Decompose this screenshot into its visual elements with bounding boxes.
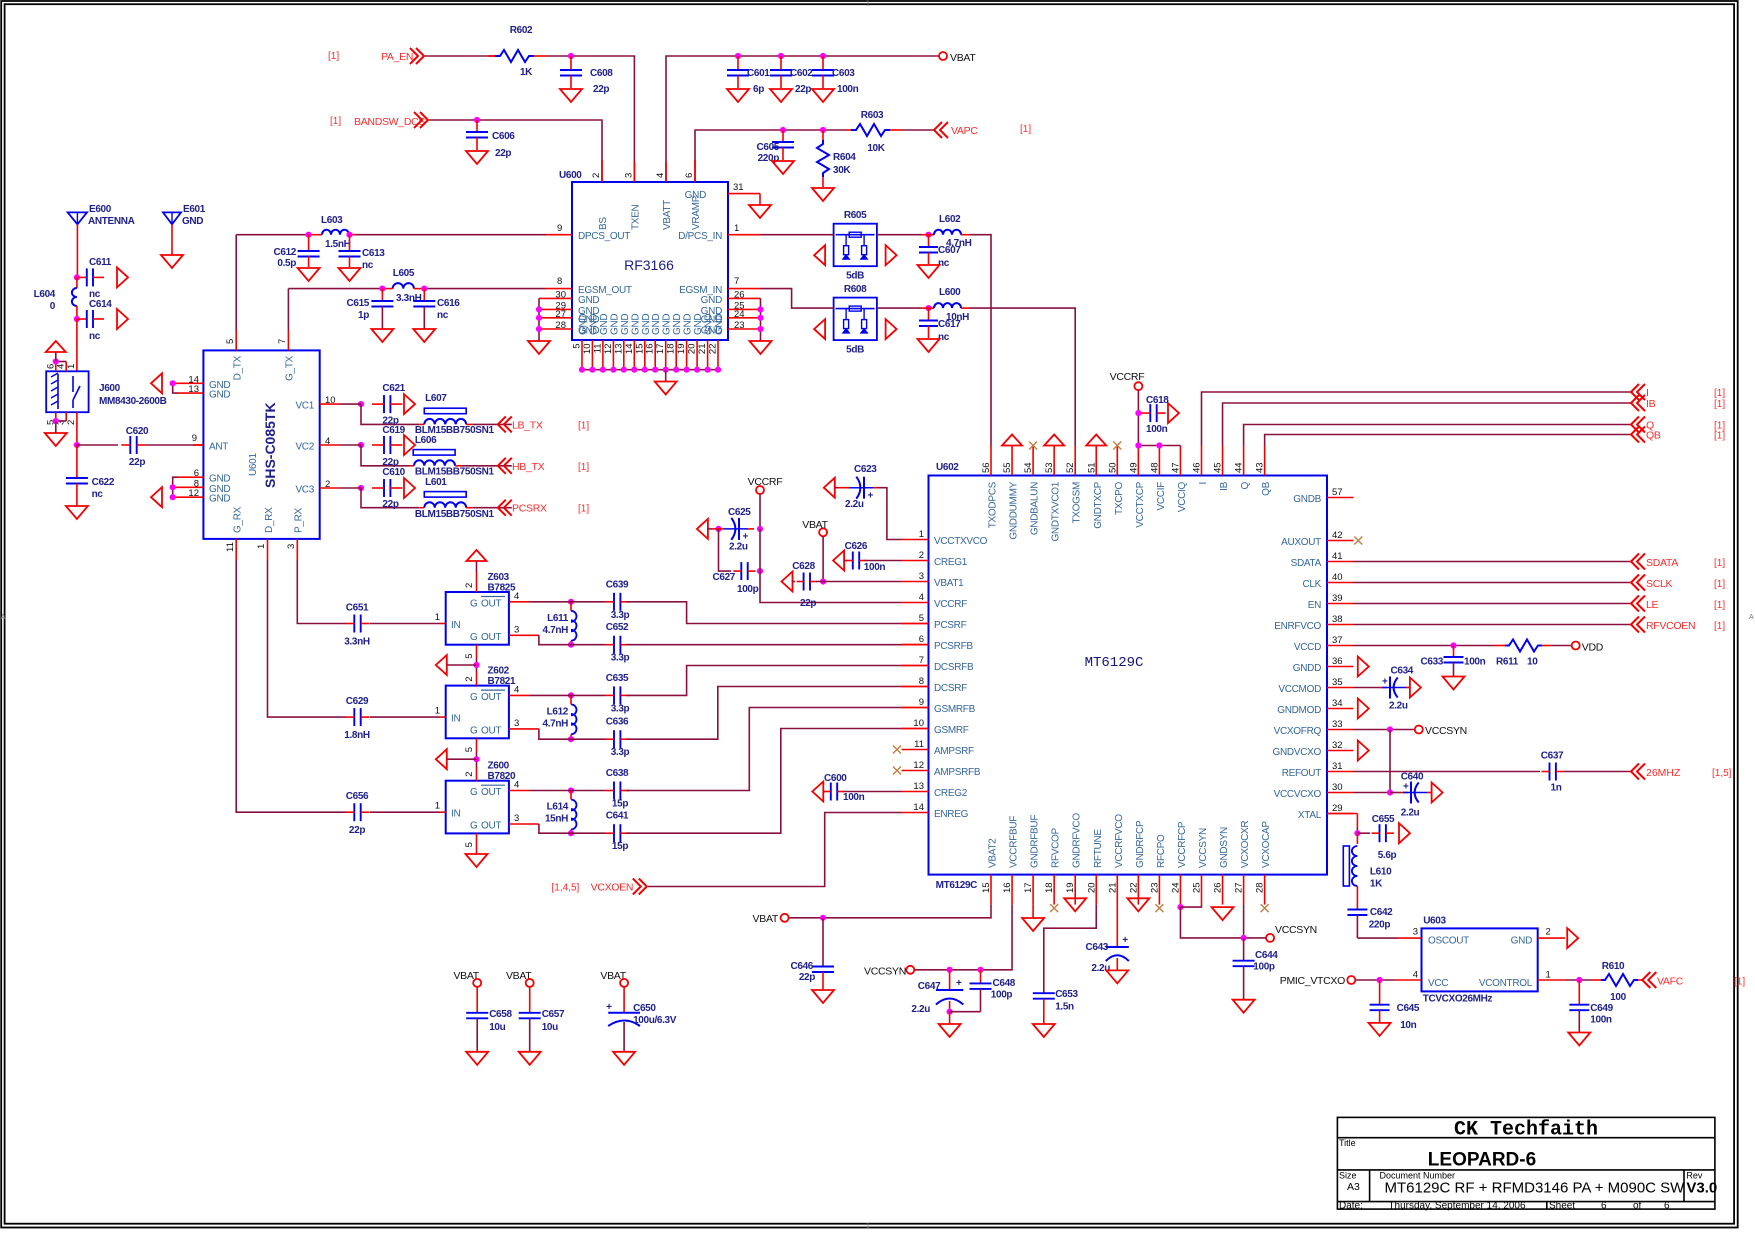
wire Z603 pin5 / Z602 pin2 [476, 645, 478, 658]
svg-text:L612: L612 [547, 706, 569, 717]
capacitor C607 [928, 235, 930, 247]
inductor L610 [1356, 833, 1358, 844]
svg-text:ANT: ANT [209, 442, 228, 453]
ground [1233, 1000, 1255, 1013]
wire [865, 560, 902, 562]
junction [1135, 442, 1141, 448]
svg-text:+: + [868, 491, 874, 502]
wire [76, 319, 78, 371]
capacitor C652 [565, 644, 605, 646]
svg-text:3.3p: 3.3p [611, 610, 630, 621]
svg-text:RFCPO: RFCPO [1156, 834, 1167, 868]
wire VCCSYN right [1179, 905, 1181, 908]
wire [146, 444, 193, 446]
junction [757, 526, 763, 532]
svg-text:GND: GND [683, 314, 694, 335]
svg-text:C646: C646 [790, 961, 813, 972]
svg-text:GND: GND [704, 314, 715, 335]
ground [812, 990, 834, 1003]
svg-text:C614: C614 [89, 299, 112, 310]
svg-text:RFVCOP: RFVCOP [1051, 827, 1062, 868]
junction [735, 53, 741, 59]
svg-text:0: 0 [50, 301, 56, 312]
svg-text:1: 1 [734, 223, 739, 234]
svg-text:L600: L600 [939, 287, 961, 298]
svg-text:AMPSRFB: AMPSRFB [934, 767, 981, 778]
svg-text:U603: U603 [1423, 916, 1446, 927]
wire [56, 361, 66, 363]
SAW filter Z603 B7825 [446, 592, 509, 645]
no-connect pin54 [1029, 442, 1037, 450]
wire [1564, 771, 1631, 773]
wire [509, 823, 539, 825]
svg-text:IN: IN [451, 620, 460, 631]
svg-text:C608: C608 [590, 68, 613, 79]
wire [472, 423, 512, 425]
wire [370, 811, 440, 813]
svg-text:C613: C613 [362, 248, 385, 259]
svg-text:31: 31 [1332, 761, 1343, 772]
capacitor C651 [353, 615, 355, 633]
svg-text:R604: R604 [833, 152, 856, 163]
net flag VCXOEN [633, 879, 647, 895]
IC U602 MT6129C [929, 476, 1328, 875]
svg-text:SDATA: SDATA [1646, 557, 1678, 569]
capacitor C614 [77, 318, 86, 320]
svg-text:VCCIQ: VCCIQ [1177, 481, 1188, 512]
wire [761, 234, 834, 236]
arrow [404, 478, 415, 498]
svg-text:C653: C653 [1055, 989, 1078, 1000]
svg-text:VCXOCAP: VCXOCAP [1261, 821, 1272, 868]
junction [694, 367, 700, 373]
wire I [1202, 392, 1632, 446]
svg-text:C622: C622 [92, 477, 115, 488]
wire [1354, 603, 1632, 605]
svg-text:Q: Q [1240, 481, 1251, 489]
svg-text:C656: C656 [346, 791, 369, 802]
svg-text:12: 12 [603, 344, 614, 355]
wire [816, 581, 902, 583]
junction [780, 127, 786, 133]
junction [589, 367, 595, 373]
svg-text:V3.0: V3.0 [1686, 1180, 1717, 1197]
SAW filter Z602 B7821 [446, 686, 509, 739]
arrow pin36 [1358, 657, 1369, 677]
junction [1387, 726, 1393, 732]
svg-text:22p: 22p [129, 457, 145, 468]
svg-text:GNDB: GNDB [1293, 494, 1321, 505]
svg-text:TXOGSM: TXOGSM [1072, 482, 1083, 524]
junction [757, 326, 763, 332]
attenuator R608 [834, 298, 877, 341]
junction [1450, 642, 1456, 648]
svg-text:30: 30 [1332, 782, 1343, 793]
svg-text:U600: U600 [559, 170, 582, 181]
svg-text:22p: 22p [593, 84, 609, 95]
capacitor C637 [1549, 763, 1551, 781]
svg-text:TCVCXO26MHz: TCVCXO26MHz [1423, 994, 1493, 1005]
svg-text:37: 37 [1332, 635, 1343, 646]
power terminal VCCRF [1134, 382, 1142, 390]
svg-text:C616: C616 [437, 298, 460, 309]
svg-text:DCSRFB: DCSRFB [934, 662, 974, 673]
capacitor C655 [1357, 832, 1370, 834]
ground [339, 268, 361, 281]
ground pin26 [1212, 907, 1234, 920]
svg-text:BS: BS [598, 217, 609, 230]
svg-text:[1]: [1] [578, 462, 589, 473]
junction [820, 127, 826, 133]
wire gnd bus left [538, 298, 540, 341]
svg-text:L610: L610 [1370, 867, 1392, 878]
svg-text:VBAT: VBAT [802, 519, 828, 531]
arrow [1567, 928, 1578, 948]
wire [361, 488, 419, 508]
wire [370, 623, 440, 625]
svg-text:R608: R608 [844, 284, 867, 295]
svg-text:GNDD: GNDD [1293, 663, 1321, 674]
svg-text:[1]: [1] [328, 51, 339, 62]
svg-text:G: G [470, 632, 478, 643]
ground [939, 1024, 961, 1037]
svg-text:PMIC_VTCXO: PMIC_VTCXO [1280, 975, 1345, 987]
wire [173, 477, 178, 497]
svg-text:[1]: [1] [1020, 124, 1031, 135]
svg-text:1: 1 [256, 544, 267, 549]
capacitor C629 [353, 708, 355, 726]
svg-text:4: 4 [655, 173, 666, 178]
power terminal VCCSYN [906, 966, 914, 974]
svg-text:TXEN: TXEN [630, 204, 641, 230]
svg-text:100n: 100n [843, 792, 865, 803]
svg-text:15nH: 15nH [545, 814, 568, 825]
IC U603 TCVCXO26MHz [1422, 928, 1538, 991]
svg-text:C636: C636 [606, 717, 629, 728]
svg-text:VCCRF: VCCRF [1110, 371, 1145, 383]
ground [1369, 1023, 1391, 1036]
svg-text:3: 3 [514, 813, 519, 824]
svg-text:3: 3 [919, 571, 924, 582]
net flag VAFC [1642, 972, 1656, 988]
svg-text:9: 9 [192, 433, 197, 444]
svg-text:ENREG: ENREG [934, 809, 969, 820]
ground [298, 268, 320, 281]
svg-text:100n: 100n [1146, 424, 1168, 435]
svg-text:[1]: [1] [1714, 579, 1725, 590]
junction [1377, 977, 1383, 983]
junction [379, 286, 385, 292]
svg-text:10n: 10n [1400, 1020, 1416, 1031]
svg-text:38: 38 [1332, 614, 1343, 625]
wire gnd bus right [760, 298, 762, 341]
svg-text:[1]: [1] [1714, 431, 1725, 442]
svg-text:TXODPCS: TXODPCS [988, 481, 999, 528]
svg-text:100n: 100n [1464, 657, 1486, 668]
svg-text:VAFC: VAFC [1657, 976, 1684, 988]
svg-text:L603: L603 [321, 215, 343, 226]
svg-text:57: 57 [1332, 487, 1343, 498]
ground [750, 341, 772, 354]
svg-text:OUT: OUT [481, 787, 501, 798]
svg-text:L602: L602 [939, 214, 961, 225]
resistor R611 [1505, 640, 1542, 652]
capacitor C634 polarized [1354, 687, 1380, 689]
svg-text:GNDRFBUF: GNDRFBUF [1030, 815, 1041, 868]
wire [877, 307, 922, 309]
svg-text:VBAT1: VBAT1 [934, 578, 964, 589]
svg-text:IB: IB [1646, 398, 1656, 410]
arrow [814, 245, 825, 265]
capacitor C649 [1578, 980, 1580, 1005]
arrow [436, 655, 447, 675]
wire PMIC_VTCXO [1395, 979, 1422, 981]
ground [770, 89, 792, 102]
svg-text:1: 1 [66, 364, 77, 369]
svg-text:B7821: B7821 [488, 676, 517, 687]
junction [705, 367, 711, 373]
arrow [833, 551, 844, 571]
wire VCXOFRQ [1354, 729, 1415, 731]
svg-text:1K: 1K [1370, 878, 1383, 889]
svg-text:11: 11 [225, 542, 236, 552]
capacitor C606 [476, 120, 478, 132]
capacitor C605 [782, 130, 784, 142]
svg-text:C601: C601 [747, 68, 770, 79]
svg-text:C651: C651 [346, 603, 369, 614]
svg-text:CK Techfaith: CK Techfaith [1454, 1119, 1598, 1142]
svg-text:C611: C611 [89, 257, 112, 268]
junction [820, 578, 826, 584]
junction [568, 642, 574, 648]
svg-text:C634: C634 [1391, 666, 1414, 677]
svg-text:G: G [470, 726, 478, 737]
junction [170, 484, 176, 490]
svg-text:41: 41 [1332, 551, 1343, 562]
net flag QB [1631, 427, 1645, 443]
svg-text:REFOUT: REFOUT [1282, 768, 1322, 779]
svg-text:4: 4 [514, 685, 519, 696]
svg-text:VCCSYN: VCCSYN [1425, 725, 1467, 737]
svg-text:GND: GND [588, 314, 599, 335]
capacitor C646 [822, 918, 824, 967]
svg-text:B7820: B7820 [488, 771, 517, 782]
junction [170, 380, 176, 386]
svg-text:2: 2 [919, 550, 924, 561]
svg-text:VBAT2: VBAT2 [988, 838, 999, 868]
wire [902, 129, 934, 131]
inductor L614 [571, 800, 577, 830]
junction [1177, 904, 1183, 910]
svg-text:5: 5 [464, 842, 475, 847]
svg-text:C610: C610 [382, 467, 405, 478]
wire from U601 to C656 [236, 560, 346, 812]
junction [306, 232, 312, 238]
ground [1568, 1033, 1590, 1046]
svg-text:VCXOFRQ: VCXOFRQ [1274, 726, 1322, 737]
svg-text:G: G [470, 821, 478, 832]
svg-text:MT6129C RF + RFMD3146 PA + M09: MT6129C RF + RFMD3146 PA + M090C SW [1385, 1180, 1686, 1197]
svg-text:A: A [1749, 614, 1754, 621]
wire [1354, 624, 1632, 626]
wire [429, 120, 602, 182]
svg-text:8: 8 [919, 676, 924, 687]
capacitor C643 polarized [1116, 905, 1118, 947]
ground [1033, 1024, 1055, 1037]
svg-text:10u: 10u [542, 1022, 558, 1033]
inductor L605 [393, 283, 414, 289]
ground [812, 188, 834, 201]
svg-text:OSCOUT: OSCOUT [1428, 935, 1469, 946]
wire [509, 601, 530, 603]
wire RFTUNE C653 [1044, 905, 1096, 994]
capacitor C648 [980, 970, 982, 984]
no-connect pin50 [1113, 442, 1121, 450]
IC U600 RF3166 [572, 182, 728, 340]
arrow [117, 267, 128, 287]
ground pin22 [1127, 898, 1149, 911]
capacitor C618 [1149, 404, 1151, 422]
svg-text:5: 5 [572, 344, 583, 349]
junction [757, 315, 763, 321]
ferrite bead L601 BLM15BB750SN1 [424, 492, 466, 498]
svg-text:VCCD: VCCD [1294, 642, 1321, 653]
capacitor C622 [66, 477, 88, 479]
wire [627, 729, 902, 834]
svg-text:G_TX: G_TX [285, 355, 296, 381]
svg-text:3: 3 [623, 173, 634, 178]
junction [642, 367, 648, 373]
svg-text:1: 1 [866, 1, 870, 8]
power terminal PMIC_VTCXO [1347, 976, 1355, 984]
svg-text:MT6129C: MT6129C [936, 880, 978, 891]
svg-text:2: 2 [464, 583, 475, 588]
net flag HB_TX [498, 458, 512, 474]
svg-text:C617: C617 [938, 319, 961, 330]
svg-text:PCSRF: PCSRF [934, 620, 967, 631]
svg-text:nc: nc [92, 489, 104, 500]
capacitor C613 [349, 235, 351, 251]
svg-text:IN: IN [451, 714, 460, 725]
junction [568, 692, 574, 698]
wire VBAT2 [789, 905, 991, 918]
svg-text:G_RX: G_RX [233, 506, 244, 533]
svg-text:TXCPO: TXCPO [1114, 481, 1125, 514]
arrow [814, 319, 825, 339]
wire [56, 420, 66, 422]
svg-text:5.6p: 5.6p [1378, 850, 1397, 861]
svg-text:nc: nc [938, 258, 950, 269]
arrow [1168, 403, 1179, 423]
svg-text:C633: C633 [1420, 657, 1443, 668]
svg-text:+: + [1382, 677, 1388, 688]
capacitor C601 [737, 56, 739, 70]
connector J600 [46, 371, 88, 412]
ground [918, 265, 940, 278]
svg-text:GND: GND [685, 190, 706, 201]
arrow [117, 309, 128, 329]
wire [843, 791, 902, 793]
svg-text:3: 3 [514, 718, 519, 729]
junction [715, 526, 721, 532]
capacitor C656 [353, 803, 355, 821]
ground [918, 339, 940, 352]
svg-text:VCCRFCP: VCCRFCP [1177, 821, 1188, 868]
inductor L612 [571, 704, 577, 734]
svg-text:29: 29 [1332, 803, 1343, 814]
svg-text:5dB: 5dB [846, 271, 864, 282]
wire Z600 pin5 to gnd [476, 833, 478, 854]
svg-text:+: + [1403, 782, 1409, 793]
wire REFOUT [1354, 771, 1541, 773]
svg-text:[1]: [1] [330, 116, 341, 127]
svg-text:3: 3 [514, 625, 519, 636]
wire [719, 529, 732, 571]
ground [371, 329, 393, 342]
wire [1552, 645, 1572, 647]
svg-text:GND: GND [209, 494, 230, 505]
arrow [812, 782, 823, 802]
svg-text:C605: C605 [756, 142, 779, 153]
capacitor C603 [822, 56, 824, 70]
junction [568, 736, 574, 742]
svg-text:C650: C650 [633, 1003, 656, 1014]
svg-text:VCCRF: VCCRF [934, 599, 967, 610]
capacitor C644 [1243, 938, 1245, 961]
capacitor C647 polarized [949, 970, 951, 990]
svg-text:1.5nH: 1.5nH [325, 239, 351, 250]
net flag PCSRX [498, 500, 512, 516]
arrow [697, 519, 708, 539]
junction [820, 53, 826, 59]
net flag IB [1631, 395, 1645, 411]
svg-text:10K: 10K [867, 143, 885, 154]
junction [1387, 789, 1393, 795]
power terminal VCCSYN [1415, 726, 1423, 734]
svg-text:6: 6 [1601, 1200, 1607, 1211]
wire [760, 529, 902, 603]
net flag VAPC [934, 122, 948, 138]
svg-text:2.2u: 2.2u [845, 499, 864, 510]
svg-text:4: 4 [514, 780, 519, 791]
svg-text:GND: GND [672, 314, 683, 335]
svg-text:10: 10 [913, 718, 924, 729]
svg-text:14: 14 [913, 802, 924, 813]
svg-text:100n: 100n [837, 84, 859, 95]
svg-text:220p: 220p [758, 153, 780, 164]
net flag RFVCOEN [1631, 617, 1645, 633]
svg-text:GND: GND [609, 314, 620, 335]
wire [877, 488, 902, 540]
svg-text:19: 19 [676, 344, 687, 355]
svg-text:GND: GND [599, 314, 610, 335]
svg-text:C639: C639 [606, 579, 629, 590]
svg-text:3.3p: 3.3p [611, 703, 630, 714]
wire [877, 234, 922, 236]
svg-text:VBAT: VBAT [753, 913, 779, 925]
svg-text:VCCRFBUF: VCCRFBUF [1009, 816, 1020, 868]
svg-text:L606: L606 [415, 435, 437, 446]
svg-text:Sheet: Sheet [1549, 1200, 1575, 1211]
svg-text:36: 36 [1332, 656, 1343, 667]
svg-text:2: 2 [1546, 927, 1551, 938]
capacitor C617 [928, 308, 930, 320]
svg-text:100n: 100n [864, 562, 886, 573]
svg-text:10: 10 [582, 344, 593, 355]
svg-text:C658: C658 [489, 1009, 512, 1020]
svg-text:42: 42 [1332, 530, 1343, 541]
wire [627, 666, 902, 696]
